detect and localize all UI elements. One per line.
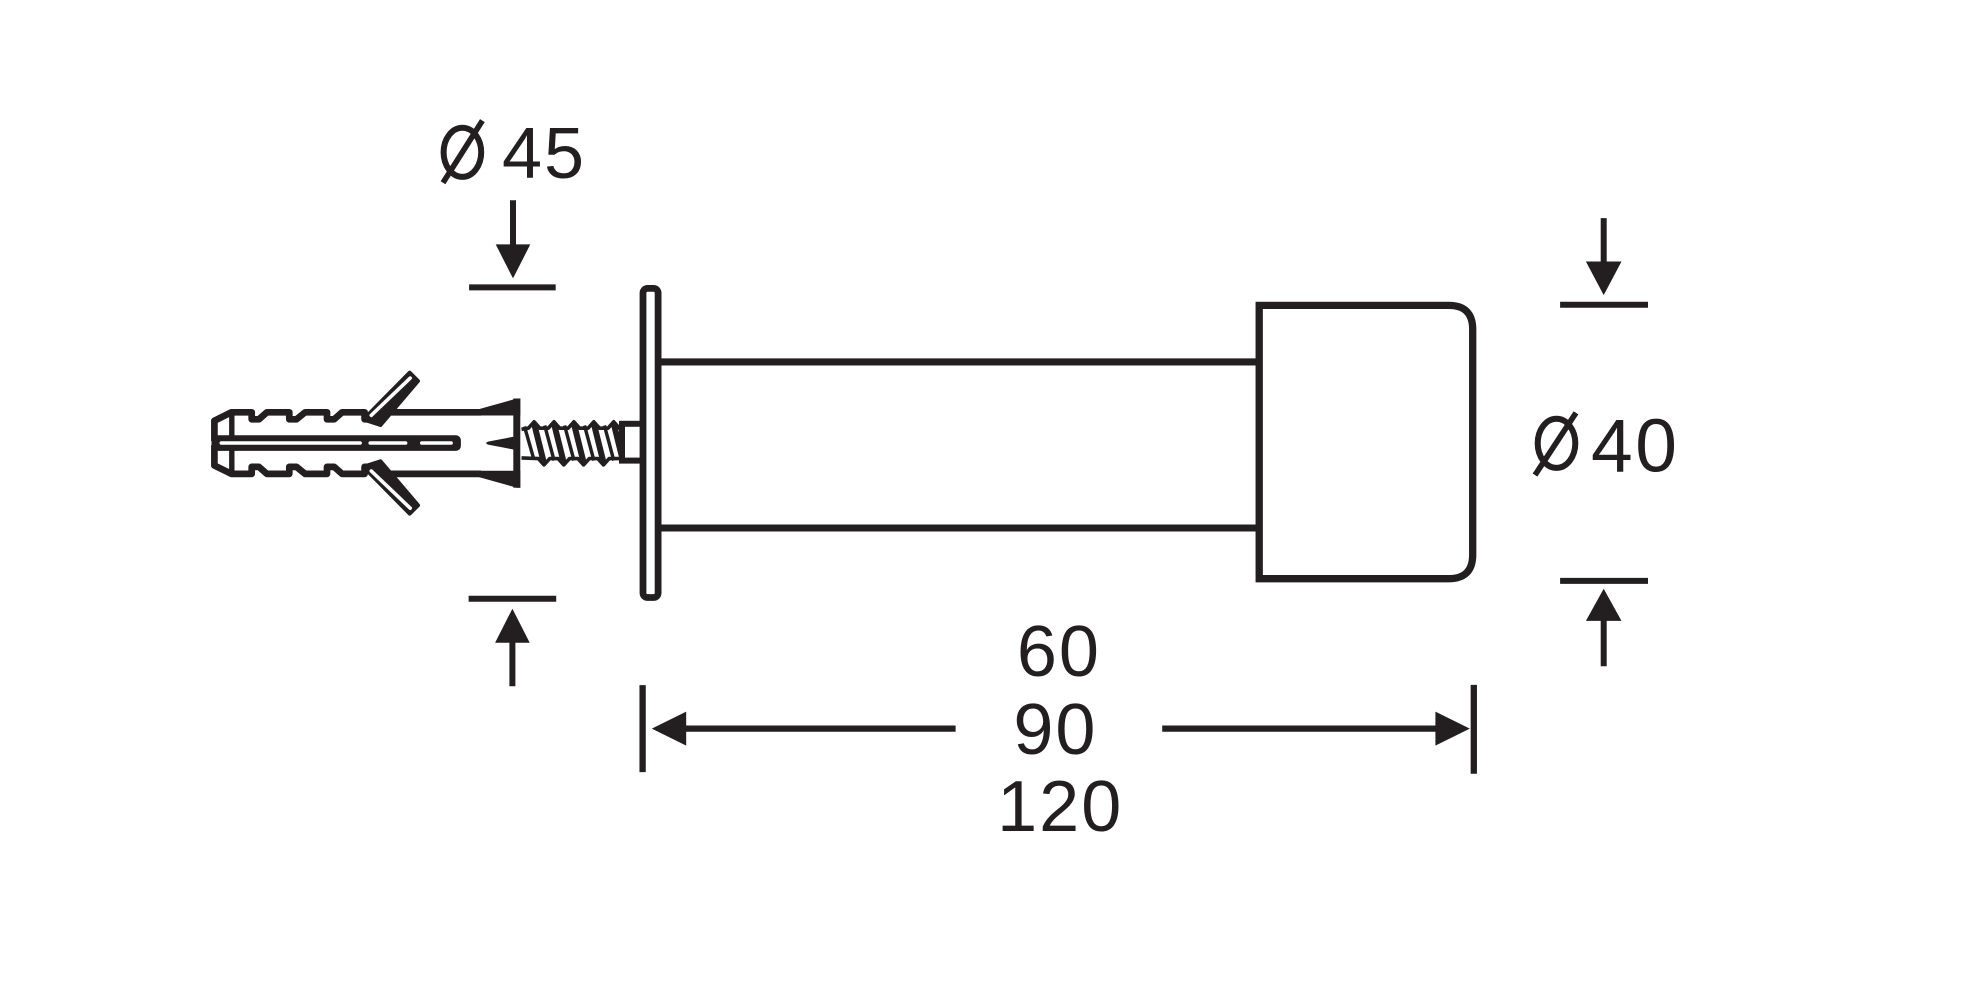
dimension Ø40 up arrow shaft <box>1601 618 1607 666</box>
dimension Ø40 top tick <box>1560 302 1648 308</box>
screw thread flank thin lines <box>525 426 614 461</box>
screw thread flank thick lines <box>534 424 623 463</box>
wall plug upper expansion wing <box>364 373 419 425</box>
wall plug upper outline with teeth <box>214 412 481 441</box>
svg-text:45: 45 <box>502 114 586 194</box>
screw thread top zigzag <box>522 422 622 430</box>
wall plug lower outline with teeth <box>214 445 481 474</box>
wall plug slit dash C <box>420 441 453 445</box>
dimension Ø45 up arrow shaft <box>509 640 515 686</box>
wall plug collar right face <box>513 399 520 488</box>
bottom dimension right extension line <box>1471 685 1477 774</box>
dimension Ø40 up arrow head <box>1586 589 1622 621</box>
dimension Ø40 slash <box>1535 413 1576 475</box>
svg-text:40: 40 <box>1591 404 1679 488</box>
wall plug collar bottom wedge <box>479 471 520 488</box>
wall plug collar top wedge <box>479 399 520 416</box>
bottom dimension left line <box>684 725 956 731</box>
cylinder top line <box>658 358 1259 365</box>
dimension Ø40 down arrow shaft <box>1601 218 1607 263</box>
dimension Ø45 up arrow head <box>495 609 530 643</box>
wall plug upper wing white stripe <box>371 378 410 415</box>
dimension Ø45 circle symbol <box>444 128 482 177</box>
cylinder bottom line <box>658 524 1259 531</box>
dimension Ø40 circle symbol <box>1538 419 1576 468</box>
wall plug collar V-notch <box>486 437 513 450</box>
screw thread bottom zigzag <box>522 458 621 465</box>
wall plug tip divider upper <box>229 413 234 440</box>
wall plug tip divider lower <box>229 446 234 473</box>
flange plate <box>643 288 658 597</box>
screw shank rectangle <box>622 424 644 461</box>
dimension Ø45 top tick <box>469 284 556 290</box>
wall plug slit dash B <box>368 441 407 445</box>
wall plug lower expansion wing <box>364 461 419 513</box>
buffer body <box>1259 305 1473 578</box>
svg-text:90: 90 <box>1013 690 1097 770</box>
dimension Ø45 slash <box>443 121 482 183</box>
svg-text:120: 120 <box>997 767 1123 847</box>
bottom dimension left arrow head <box>652 712 686 746</box>
dimension Ø45 down arrow shaft <box>510 200 516 248</box>
dimension Ø40 down arrow head <box>1586 262 1622 296</box>
wall plug slit dash A <box>220 441 362 445</box>
bottom dimension right line <box>1162 725 1437 731</box>
bottom dimension right arrow head <box>1435 712 1469 746</box>
svg-text:60: 60 <box>1017 612 1101 692</box>
dimension Ø40 bottom tick <box>1560 578 1648 584</box>
wall plug lower wing white stripe <box>371 471 410 508</box>
wall plug central bar <box>212 435 461 451</box>
bottom dimension left extension line <box>639 685 645 772</box>
dimension Ø45 down arrow head <box>496 244 531 278</box>
dimension Ø45 bottom tick <box>469 596 557 602</box>
